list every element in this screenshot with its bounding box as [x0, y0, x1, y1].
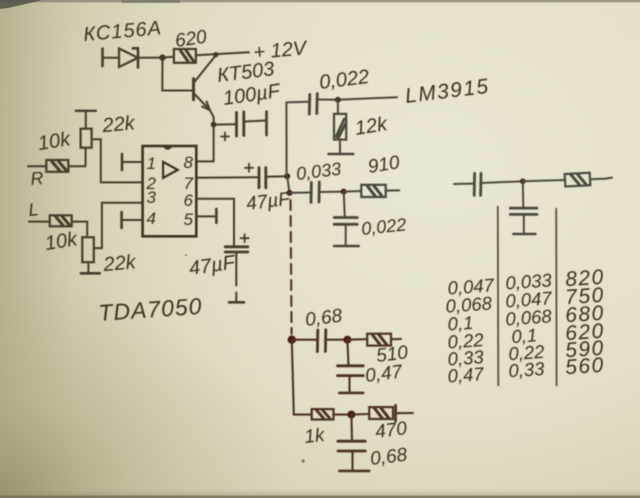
capacitor at pin 4 — [122, 212, 143, 228]
table row 4: 0,22 0,1 620 — [447, 320, 606, 354]
wire — [351, 451, 353, 471]
wire — [266, 175, 287, 178]
capacitor 0,47 (shunt) — [338, 366, 364, 376]
svg-text:R: R — [30, 168, 45, 189]
wire pin 7 output — [196, 176, 258, 179]
transistor КТ503 — [194, 55, 216, 110]
terminal bar — [265, 112, 268, 136]
wire riser to top line — [285, 102, 287, 176]
resistor 910 — [361, 185, 385, 197]
wire — [523, 180, 565, 181]
wire (down to second row) — [292, 340, 312, 415]
junction node (tone filter top) — [288, 336, 296, 344]
wire — [344, 190, 362, 193]
wire to pin 3 — [94, 203, 143, 248]
wire L input — [29, 221, 50, 223]
table row 5: 0,33 0,22 590 — [447, 337, 606, 371]
svg-text:8: 8 — [184, 153, 194, 172]
svg-text:0,47: 0,47 — [447, 363, 485, 387]
resistor 510 — [367, 334, 391, 346]
table column separator — [497, 206, 500, 386]
svg-text:1k: 1k — [303, 425, 327, 448]
capacitor 100µF — [221, 112, 244, 141]
ground — [81, 272, 100, 275]
svg-text:4: 4 — [147, 209, 156, 228]
ground — [329, 153, 354, 156]
svg-text:L: L — [28, 199, 40, 220]
wire — [326, 339, 348, 341]
wire pin 6 — [196, 199, 234, 247]
svg-text:560: 560 — [565, 354, 606, 380]
wire — [68, 165, 85, 167]
wire — [396, 412, 413, 414]
ground — [339, 392, 363, 395]
capacitor (shunt, right cell) — [510, 208, 537, 214]
ground — [513, 233, 535, 236]
wire — [290, 192, 310, 194]
junction node (emitter / pin8 supply) — [211, 122, 217, 128]
capacitor 0,022 (series, top) — [309, 94, 317, 115]
wire — [481, 181, 523, 183]
wire — [214, 123, 236, 125]
svg-text:5: 5 — [184, 210, 194, 229]
resistor 470 — [369, 407, 393, 419]
ground — [229, 293, 244, 303]
table row 3: 0,1 0,068 680 — [447, 302, 606, 336]
wire to pin 2 — [92, 139, 143, 182]
op-amp triangle symbol — [163, 162, 178, 178]
wire — [522, 181, 525, 208]
resistor 1k — [312, 409, 334, 419]
resistor 10k (R input) — [46, 160, 68, 172]
resistor (right cell) — [565, 173, 591, 187]
capacitor 0,68 (series) — [317, 330, 325, 352]
op-amp IC TDA7050 body — [143, 146, 197, 237]
wire — [72, 222, 88, 238]
junction node B (filter tap) — [287, 190, 293, 196]
wire — [348, 376, 350, 393]
junction node — [347, 411, 355, 419]
wire — [347, 340, 348, 366]
svg-text:0,33: 0,33 — [508, 358, 546, 382]
resistor 22k (R bias) — [81, 111, 92, 167]
wire — [350, 415, 353, 441]
junction node (collector) — [213, 52, 218, 57]
capacitor (series, right cell) — [474, 173, 481, 195]
wire to +12V — [196, 52, 249, 55]
junction node (12k tap) — [335, 97, 341, 103]
junction node (0,022 tap) — [341, 189, 347, 195]
svg-text:1: 1 — [147, 154, 156, 173]
resistor 10k (L input) — [50, 215, 72, 226]
wire — [345, 224, 347, 246]
wire — [347, 338, 367, 341]
wire pin 8 to supply node — [196, 125, 213, 162]
zener diode КС156А — [119, 48, 138, 68]
ground — [334, 245, 358, 248]
capacitor at pin 5 — [196, 209, 216, 223]
wire — [87, 262, 89, 273]
wire — [103, 57, 120, 59]
ground — [339, 470, 369, 473]
wire R input — [28, 165, 46, 167]
terminal bar — [394, 405, 397, 421]
resistor 22k (L bias) — [82, 237, 94, 262]
wire — [292, 339, 316, 341]
wire node A to node B — [287, 176, 289, 193]
wire — [523, 214, 525, 233]
wire — [138, 57, 163, 59]
capacitor 47µF (output) — [245, 164, 266, 188]
wire — [344, 192, 345, 217]
dashed wire down to tone filter — [291, 200, 292, 334]
input terminal bar (diode anode) — [101, 49, 104, 67]
wire — [163, 57, 174, 58]
wire — [235, 252, 237, 286]
table row 2: 0,068 0,047 750 — [445, 284, 606, 318]
resistor 620 — [174, 49, 196, 63]
svg-text:6: 6 — [184, 191, 194, 210]
wire — [319, 191, 343, 193]
table column separator — [555, 208, 557, 386]
wire — [286, 101, 308, 104]
wire — [244, 121, 267, 122]
wire — [334, 414, 352, 416]
capacitor 0,68 (shunt 2) — [338, 441, 365, 451]
wire (emitter down to supply node) — [210, 110, 214, 125]
wire — [351, 413, 369, 416]
capacitor 47µF (pin 6) — [225, 234, 248, 252]
svg-text:22k: 22k — [101, 112, 137, 137]
capacitor at pin 1 — [122, 154, 143, 170]
svg-text:22k: 22k — [102, 251, 138, 276]
resistor 12k — [334, 100, 346, 153]
wire — [391, 338, 401, 340]
table row 6: 0,47 0,33 560 — [447, 354, 606, 388]
wire (feedback: junction to base) — [162, 58, 193, 91]
junction node (diode / base drive) — [159, 54, 165, 60]
wire — [386, 189, 400, 191]
power rail tick — [76, 110, 96, 112]
junction node A (47µF out) — [284, 173, 290, 179]
wire to LM3915 — [317, 97, 397, 100]
svg-text:3: 3 — [147, 188, 157, 207]
wire — [454, 183, 473, 185]
junction node — [520, 178, 526, 184]
svg-text:620: 620 — [174, 27, 209, 52]
wire — [590, 178, 612, 180]
capacitor 0,022 (shunt) — [334, 218, 357, 225]
svg-text:470: 470 — [374, 418, 408, 443]
junction node — [343, 336, 351, 344]
capacitor 0,033 (series) — [311, 182, 319, 202]
table row 1: 0,047 0,033 820 — [447, 266, 606, 300]
